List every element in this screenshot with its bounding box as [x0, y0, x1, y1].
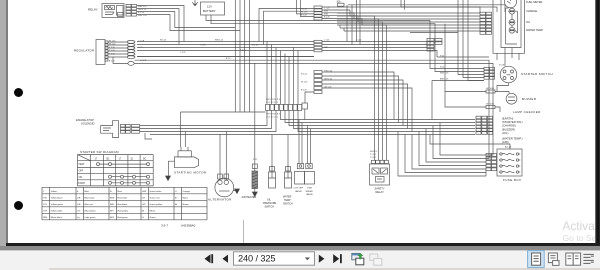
wire fuse feed 5: [412, 135, 486, 170]
svg-text:B 2.0: B 2.0: [226, 58, 230, 60]
bus mating connector: [427, 39, 434, 42]
wire solenoid bottom stub: [145, 133, 152, 139]
punch hole top: [14, 88, 23, 97]
svg-text:17: 17: [119, 158, 122, 160]
starting motor M2: [175, 157, 199, 168]
fuse 20A: [338, 3, 345, 6]
svg-text:Y 1.25: Y 1.25: [109, 53, 116, 55]
fuses F1-F4: [500, 153, 502, 155]
svg-text:A 1.25: A 1.25: [505, 146, 512, 149]
svg-text:R/B: R/B: [110, 204, 114, 206]
svg-text:AIR HEATER: AIR HEATER: [242, 196, 257, 199]
svg-text:W 1.25: W 1.25: [109, 44, 116, 46]
wire C1 to safety relay 4: [322, 19, 387, 161]
svg-text:Green white: Green white: [150, 190, 163, 193]
svg-text:Y 1.25: Y 1.25: [240, 49, 245, 51]
svg-text:CHARGE: CHARGE: [526, 9, 537, 13]
left viewer background strip: [0, 0, 6, 246]
svg-text:Red: Red: [118, 191, 123, 193]
svg-text:Yellow black: Yellow black: [51, 198, 64, 200]
battery bundle verticals: [235, 0, 249, 112]
water temp lamp L3: [509, 27, 515, 33]
svg-text:A4235BA0: A4235BA0: [181, 224, 196, 228]
connector C1: [314, 6, 322, 8]
wire run lower 1: [298, 110, 475, 131]
wire fuse feed lower 2: [398, 132, 486, 177]
alternator terminal connectors: [218, 174, 223, 179]
svg-text:Br: Br: [175, 203, 177, 206]
svg-text:Y: Y: [43, 191, 45, 193]
wire bus out 1: [322, 41, 427, 43]
svg-text:BATTERY: BATTERY: [203, 9, 216, 13]
svg-text:Brown: Brown: [183, 203, 190, 206]
wire starter switch bottom exit: [497, 83, 509, 92]
wire top to starter 1: [458, 0, 484, 75]
svg-text:Light green: Light green: [85, 216, 97, 219]
starting motor ground: [168, 161, 174, 176]
svg-text:Yellow green: Yellow green: [51, 203, 64, 206]
svg-text:Y 1.25: Y 1.25: [109, 50, 116, 52]
svg-text:FUSE BOX: FUSE BOX: [503, 178, 521, 182]
svg-text:W: W: [142, 211, 145, 213]
wire top stub: [401, 0, 497, 33]
svg-text:FUEL METER: FUEL METER: [526, 0, 542, 4]
water temp switch wire: [287, 135, 289, 173]
bus lower wire 2: [135, 60, 490, 158]
svg-text:LAMP CHECKER: LAMP CHECKER: [513, 110, 541, 114]
bus connector B2: [314, 40, 322, 43]
wire C3 pin2 to run: [322, 76, 399, 123]
svg-text:Y 1.25: Y 1.25: [200, 44, 205, 46]
svg-text:12V: 12V: [207, 5, 212, 9]
regulator connector body: [96, 40, 105, 65]
svg-text:Yellow white: Yellow white: [51, 210, 64, 213]
wire relay pin1 to bus: [137, 6, 184, 42]
color legend table grid: [42, 186, 207, 188]
starter sw diagram contact marks: [97, 163, 100, 166]
svg-text:1 2 1 1: 1 2 1 1: [370, 154, 376, 156]
wire to C1 pin4: [301, 0, 315, 17]
svg-text:Y/G: Y/G: [43, 204, 47, 206]
bus wire 4: [137, 50, 314, 52]
svg-text:Green yellow: Green yellow: [150, 203, 163, 206]
svg-text:OIL: OIL: [526, 20, 531, 24]
svg-text:DC: DC: [143, 158, 147, 160]
svg-text:240 / 325: 240 / 325: [238, 253, 275, 263]
wire motor feed horizontal: [181, 111, 266, 113]
svg-text:CUT OFF: CUT OFF: [294, 188, 304, 190]
alternator terminal wires: [220, 132, 226, 181]
wire relay pin2 to bus: [137, 9, 179, 45]
svg-text:WATER TEMP: WATER TEMP: [526, 28, 543, 32]
svg-text:Black: Black: [183, 198, 189, 200]
svg-text:HEAT: HEAT: [79, 163, 86, 166]
svg-text:REGULATOR: REGULATOR: [74, 49, 95, 53]
wire C3 pin4 to run: [322, 84, 408, 129]
starter switch connector: [484, 67, 489, 70]
svg-text:VALVE: VALVE: [306, 193, 313, 196]
wire buzzer feed: [445, 24, 486, 92]
view mode buttons: [528, 251, 545, 268]
svg-text:W/B 1.25: W/B 1.25: [138, 6, 147, 8]
svg-text:R/G: R/G: [110, 217, 114, 219]
alternator ground: [234, 189, 238, 191]
svg-text:Red yellow: Red yellow: [118, 211, 129, 213]
wire bar to checker 3: [289, 110, 475, 125]
wire fuse box top: [430, 135, 510, 150]
svg-text:W B R L: W B R L: [370, 151, 377, 153]
svg-text:(AIR): (AIR): [502, 140, 509, 144]
svg-text:SOLENOID: SOLENOID: [81, 122, 95, 126]
svg-text:B 1.25: B 1.25: [138, 12, 145, 14]
svg-text:W R Y Y B L R G: W R Y Y B L R G: [266, 99, 281, 101]
svg-text:White black: White black: [51, 216, 63, 219]
svg-text:G/Y 0.85: G/Y 0.85: [486, 104, 495, 106]
svg-text:Green red: Green red: [150, 197, 161, 200]
valve V2 connector: [306, 164, 312, 169]
wire C3 pin3 to run: [322, 80, 403, 126]
wire cluster feed 6: [340, 25, 480, 28]
wire C3 pin5 to run: [322, 88, 412, 132]
regulator bullet connector: [128, 62, 134, 66]
wire bus drop f: [288, 57, 290, 105]
wire fuse feed 2: [433, 126, 486, 159]
svg-text:ALTERNATOR: ALTERNATOR: [208, 198, 232, 202]
svg-text:R/W: R/W: [324, 11, 328, 13]
charge lamp L1: [509, 8, 515, 14]
svg-text:L 1.25: L 1.25: [356, 39, 361, 41]
svg-text:SWITCH: SWITCH: [283, 203, 293, 206]
connector C4 small: [302, 103, 308, 109]
wire C3 pin1 to run: [322, 72, 394, 120]
svg-text:G/Y: G/Y: [142, 204, 146, 206]
page fold line: [243, 220, 245, 243]
svg-text:G/W: G/W: [142, 191, 147, 193]
svg-text:Blue red: Blue red: [85, 203, 94, 206]
svg-text:L/R: L/R: [77, 204, 81, 206]
regulator pin wires: [108, 41, 127, 43]
wire run lower 2: [150, 134, 475, 136]
svg-text:R 1.25: R 1.25: [301, 9, 308, 11]
lamp checker resistor R2: [486, 106, 495, 109]
oil lamp L2: [509, 19, 515, 25]
wire bar to checker 1: [281, 110, 476, 119]
svg-text:Lg: Lg: [77, 217, 80, 219]
svg-text:S1: S1: [131, 158, 135, 160]
battery ground symbol: [192, 0, 198, 6]
wire valve V2 feed: [308, 126, 311, 164]
wire fuse to bus pair: [347, 5, 352, 45]
svg-text:OFF: OFF: [79, 171, 84, 173]
page right dark edge: [595, 0, 600, 247]
svg-text:BUZZER: BUZZER: [522, 97, 537, 101]
mid connector bar: [266, 104, 270, 110]
svg-text:W 1.25: W 1.25: [301, 12, 308, 14]
svg-text:G/Y 0.85: G/Y 0.85: [486, 88, 495, 90]
cluster connector: [480, 12, 486, 15]
wire top to starter 3: [468, 0, 484, 81]
svg-text:W 1.25: W 1.25: [252, 44, 258, 46]
svg-text:W 1.25: W 1.25: [109, 41, 116, 43]
wire cluster feed 3: [337, 18, 480, 20]
cluster inner box: [501, 0, 521, 48]
svg-text:SAFETY: SAFETY: [375, 187, 385, 191]
wire cluster feed 7: [344, 28, 480, 31]
wire relay pin3 to battery bundle: [137, 12, 235, 28]
svg-text:L/B: L/B: [77, 198, 81, 200]
bus lower wire 1: [134, 63, 493, 155]
wire relay pin4 to battery bundle: [137, 15, 240, 31]
bus wire 2: [137, 44, 314, 46]
wire bus out 2: [322, 44, 427, 46]
lamp checker connector: [476, 116, 481, 119]
svg-text:TWO: TWO: [307, 188, 312, 190]
svg-text:b: b: [77, 191, 79, 193]
svg-text:RELAY: RELAY: [376, 190, 385, 194]
svg-text:R: R: [110, 191, 112, 193]
svg-text:STARTING MOTOR: STARTING MOTOR: [174, 171, 207, 175]
solenoid connector: [121, 124, 126, 127]
svg-text:SPEED: SPEED: [306, 191, 314, 193]
wire fuse stub 1: [357, 0, 361, 45]
wire checker drop: [432, 81, 484, 120]
svg-text:O: O: [175, 191, 177, 193]
wire cluster bottom drops: [497, 48, 519, 67]
wire to C1 pin3: [297, 0, 315, 14]
valve V1 connector: [297, 164, 303, 169]
wire bar to solenoid 2: [140, 110, 272, 128]
regulator mating connector: [127, 41, 135, 44]
toolbar: [0, 250, 600, 270]
svg-text:1.25: 1.25: [253, 159, 258, 161]
svg-text:R/B 1.25: R/B 1.25: [138, 9, 147, 11]
wire fuse to meter: [348, 5, 505, 12]
two speed valve V2: [305, 172, 315, 185]
svg-text:Yellow: Yellow: [51, 191, 58, 193]
svg-text:L 1.25: L 1.25: [324, 8, 330, 10]
wire bus out 4: [322, 51, 489, 58]
svg-text:Y/B: Y/B: [43, 198, 47, 200]
svg-text:W 1.25: W 1.25: [301, 82, 308, 84]
wire bus drop d: [280, 51, 282, 105]
oil pressure switch connector: [270, 167, 275, 172]
svg-text:2 5 2 2: 2 5 2 2: [370, 157, 376, 159]
wire bar to solenoid 3: [140, 110, 276, 131]
svg-text:Green: Green: [150, 216, 157, 219]
gray band below page: [0, 246, 600, 250]
svg-text:Red white: Red white: [118, 197, 129, 200]
svg-text:G: G: [142, 217, 144, 219]
water temp switch connector: [286, 167, 291, 172]
svg-text:B 1.25: B 1.25: [324, 16, 331, 18]
wire C1 to safety relay 3: [322, 16, 383, 161]
wire bus drop b: [271, 45, 273, 105]
water temp switch S3: [285, 172, 292, 188]
wire C1 to safety relay 2: [322, 13, 379, 161]
safety relay box: [370, 164, 390, 185]
starter switch SW1: [500, 66, 517, 83]
svg-text:Blue black: Blue black: [85, 198, 96, 200]
relay RY1: [102, 4, 124, 18]
wire bus drop a: [266, 42, 268, 105]
cluster outer box: [493, 0, 525, 53]
svg-text:R/W: R/W: [110, 198, 115, 200]
wire cluster feed 2: [337, 15, 480, 17]
starter sw diagram table grid: [77, 154, 153, 156]
air heater ground: [254, 189, 256, 193]
battery 12V: [201, 2, 225, 15]
svg-text:W/B: W/B: [324, 14, 328, 16]
alternator G1: [215, 178, 234, 197]
svg-text:3-5-7: 3-5-7: [161, 224, 168, 228]
svg-text:L/Y: L/Y: [77, 211, 81, 213]
fuse box connector: [486, 154, 491, 157]
air heater wire: [254, 63, 256, 171]
wire battery to starter bus A: [206, 15, 484, 69]
svg-text:L 1.25: L 1.25: [324, 39, 329, 41]
wire bus drop g: [293, 48, 295, 105]
wire to C1 pin1: [259, 9, 314, 42]
svg-text:R/W 1.25: R/W 1.25: [440, 73, 449, 75]
wire to C1 pin2: [264, 11, 315, 44]
wire bar to checker 4: [294, 110, 476, 128]
svg-text:2 1 1 1 2 1 1 1: 2 1 1 1 2 1 1 1: [266, 102, 278, 104]
svg-text:B: B: [175, 198, 177, 200]
wire resistor to checker: [495, 107, 500, 112]
oil pressure switch S2: [269, 172, 276, 188]
svg-text:Red black: Red black: [118, 204, 129, 206]
bus wire 5: [137, 56, 314, 58]
svg-text:Y 1.25: Y 1.25: [109, 47, 116, 49]
svg-text:RELAY: RELAY: [88, 8, 98, 12]
svg-text:Orange: Orange: [183, 190, 191, 193]
svg-text:R/W 1.25: R/W 1.25: [215, 39, 223, 41]
wire bus drop c: [275, 48, 277, 105]
oil pressure switch wire: [271, 135, 273, 173]
bus wire 6: [137, 56, 314, 58]
fuel meter M1: [505, 0, 517, 8]
svg-text:R/Y: R/Y: [110, 211, 114, 213]
buzzer BZ1: [506, 93, 517, 104]
svg-text:Y 1.25: Y 1.25: [180, 52, 185, 54]
svg-text:B 1.25: B 1.25: [109, 61, 116, 63]
svg-text:B1: B1: [107, 158, 111, 160]
air heater connector: [252, 164, 257, 169]
svg-text:Y/W: Y/W: [43, 211, 48, 213]
svg-text:G/r: G/r: [142, 197, 145, 200]
wire battery to starter bus B: [211, 15, 484, 72]
svg-text:White: White: [150, 210, 156, 213]
wire bus drop h: [297, 51, 299, 105]
cluster lamp wires: [506, 8, 518, 44]
wire lamp checker feed: [445, 92, 486, 108]
bus wire 3: [137, 47, 314, 49]
svg-text:STARTER SW DIAGRAM: STARTER SW DIAGRAM: [80, 150, 119, 154]
wire motor feed 2: [184, 132, 186, 148]
svg-text:3.5 W: 3.5 W: [499, 65, 504, 67]
wire cluster feed 1: [337, 12, 480, 14]
svg-text:Red green: Red green: [118, 216, 129, 219]
page bottom black border: [6, 243, 600, 246]
wire motor feed vertical: [180, 112, 182, 147]
svg-text:Blue yellow: Blue yellow: [85, 211, 96, 213]
wire bar to checker 2: [285, 110, 475, 122]
wire fuse feed 4: [419, 132, 486, 166]
cut off valve V1: [295, 172, 305, 185]
toolbar nav icons: [0, 250, 600, 270]
punch hole bottom: [14, 201, 23, 210]
relay connector pins: [126, 4, 131, 7]
connector C3: [314, 71, 322, 74]
svg-text:(OIL): (OIL): [502, 131, 508, 135]
wire bus out 3: [322, 42, 427, 48]
air heater H1: [252, 171, 258, 189]
svg-text:W 1.25: W 1.25: [160, 39, 166, 41]
bus wire 1: [137, 41, 314, 43]
svg-text:B 1.25: B 1.25: [301, 90, 308, 92]
svg-text:W/B: W/B: [43, 217, 48, 219]
buzzer resistor R1: [486, 90, 495, 93]
engine stop solenoid SOL1: [101, 121, 119, 138]
windows watermark: [563, 219, 600, 232]
wire fuse feed 3: [426, 129, 486, 163]
wire fuse feed 1: [440, 123, 486, 156]
svg-text:17: 17: [95, 158, 98, 160]
wire fuse feed lower 1: [405, 135, 486, 173]
svg-text:ON: ON: [79, 177, 83, 179]
svg-text:B 1.25: B 1.25: [301, 15, 308, 17]
svg-text:ENGINE-STOP: ENGINE-STOP: [76, 118, 94, 122]
svg-text:VALVE: VALVE: [295, 190, 302, 193]
svg-text:Blue: Blue: [85, 191, 90, 193]
wire C1 to safety relay 1: [322, 10, 375, 161]
svg-text:R 1.25: R 1.25: [301, 74, 308, 76]
wire valve V1 feed: [299, 120, 302, 164]
wire bar to solenoid 1: [140, 110, 267, 125]
wire C3 pin6 left drop: [305, 92, 314, 103]
svg-text:STARTER SWITCH: STARTER SWITCH: [521, 72, 553, 76]
fuse box outline: [497, 149, 522, 176]
wire bus drop e: [284, 54, 286, 105]
svg-text:SWITCH: SWITCH: [265, 206, 275, 209]
svg-text:START: START: [78, 182, 86, 185]
wire cluster feed 5: [337, 24, 480, 26]
safety relay connector: [371, 160, 375, 163]
wire C1 to cluster 1: [322, 7, 480, 13]
wire top to starter 2: [463, 0, 484, 78]
wire resistor to buzzer: [495, 92, 509, 94]
svg-text:R/W 1.25: R/W 1.25: [138, 15, 148, 17]
wire cluster feed 4: [337, 21, 480, 23]
svg-text:W R Y Y B L R G: W R Y Y B L R G: [266, 114, 281, 116]
